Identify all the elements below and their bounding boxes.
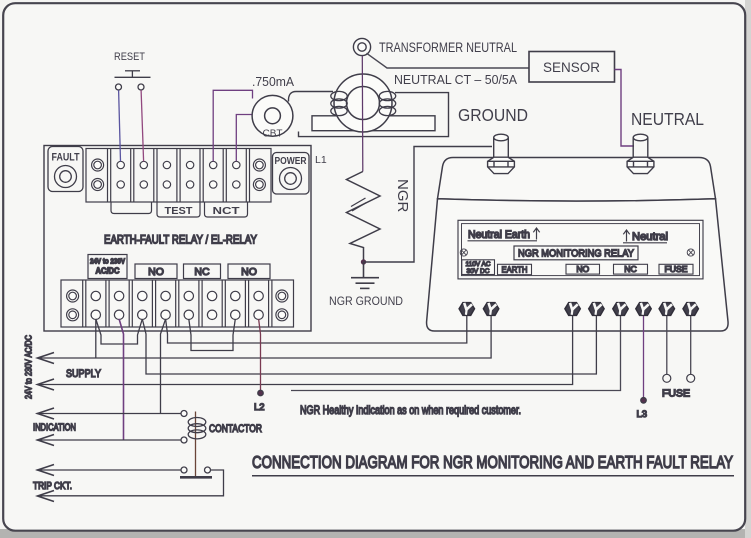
indication arrow 2 — [38, 435, 55, 446]
terminal screws TB2 — [67, 290, 288, 321]
wire trip top — [37, 469, 182, 471]
svg-text:EARTH-FAULT RELAY / EL-RELAY: EARTH-FAULT RELAY / EL-RELAY — [104, 233, 257, 247]
label FUSE — [659, 264, 693, 274]
wire relay bolt 8 to fuse — [690, 316, 692, 374]
svg-text:L1: L1 — [315, 154, 327, 166]
relay terminal bolt 2 — [483, 303, 498, 316]
svg-text:NGR MONITORING RELAY: NGR MONITORING RELAY — [518, 248, 634, 260]
wire CBT to CT top conductor — [288, 92, 333, 102]
svg-text:FUSE: FUSE — [665, 264, 688, 274]
node L2 — [258, 390, 263, 395]
svg-text:110V AC: 110V AC — [466, 261, 491, 268]
terminal strip TB2 (bottom) — [61, 280, 294, 327]
wire TB1 col6 to CBT — [213, 90, 252, 161]
svg-text:30V DC: 30V DC — [467, 268, 490, 275]
TEST bracket label — [157, 202, 200, 217]
wire NGR node to relay ground stud — [364, 147, 493, 263]
svg-text:L3: L3 — [637, 409, 648, 420]
CBT transformer — [252, 95, 293, 136]
NGR monitoring relay enclosure front face — [427, 199, 729, 331]
label NC — [614, 264, 648, 274]
terminal strip TB1 (top) — [86, 149, 271, 203]
wire TB2 col5 to relay bolt 1 — [166, 316, 467, 343]
svg-text:NC: NC — [194, 266, 210, 278]
wire relay bolt 5 horizontal — [291, 316, 621, 391]
POWER indicator lamp — [273, 153, 310, 195]
wire supply 2 to relay bolt 3 — [40, 316, 573, 385]
wire relay bolt 7 to fuse — [666, 316, 668, 374]
trip arrow 1 — [38, 465, 55, 476]
label NC box — [184, 264, 221, 279]
svg-text:NGR Healthy Indication as on w: NGR Healthy Indication as on when requir… — [300, 403, 521, 417]
relay terminal bolt 5 — [613, 303, 628, 316]
svg-text:NEUTRAL: NEUTRAL — [631, 109, 704, 129]
svg-text:NGR GROUND: NGR GROUND — [329, 296, 403, 308]
wire sensor to neutral stud — [615, 70, 635, 147]
svg-text:Neutral Earth: Neutral Earth — [468, 229, 530, 241]
label NO — [566, 264, 600, 274]
ground symbol — [351, 262, 379, 288]
terminal screws TB1 — [92, 159, 266, 191]
neutral stud terminal — [24, 134, 735, 501]
svg-text:NCT: NCT — [213, 205, 241, 217]
label NO box 1 — [135, 264, 177, 279]
node L3 — [641, 398, 646, 403]
svg-text:GROUND: GROUND — [458, 105, 528, 125]
SENSOR box — [529, 52, 615, 83]
svg-text:NGR: NGR — [394, 179, 411, 213]
wire TB2 col3 to indication bottom — [119, 319, 123, 440]
svg-text:24V to 230V: 24V to 230V — [90, 257, 126, 266]
CT winding left — [331, 91, 347, 115]
label EARTH — [498, 264, 532, 274]
relay terminal bolt 3 — [565, 303, 580, 316]
wire TB2 col9 to L2 — [259, 319, 261, 391]
supply arrow 1 — [38, 353, 55, 364]
svg-text:TRIP CKT.: TRIP CKT. — [33, 481, 72, 492]
indication arrow 1 — [38, 408, 55, 419]
label NGR MONITORING RELAY — [514, 246, 638, 260]
wire relay bolt 6 to L3 — [643, 316, 645, 398]
NGR monitoring relay enclosure top face — [438, 158, 716, 202]
svg-text:CONTACTOR: CONTACTOR — [209, 423, 262, 435]
wire transformer neutral to sensor — [367, 53, 530, 68]
svg-text:NC: NC — [624, 264, 636, 274]
label NO box 2 — [228, 264, 270, 279]
wire reset left to TB1 col2 — [119, 90, 121, 161]
wire CBT to CT bottom loop — [299, 93, 449, 137]
wire reset right to TB1 col3 — [141, 90, 144, 161]
svg-text:Neutral: Neutral — [632, 231, 668, 243]
svg-text:INDICATION: INDICATION — [33, 423, 76, 434]
wire transformer neutral down through CT to NGR — [361, 56, 364, 172]
svg-text:.750mA: .750mA — [252, 74, 294, 89]
node NGR ground junction — [361, 259, 366, 264]
wire indication top — [37, 413, 182, 415]
faceplate screw right — [687, 249, 694, 256]
label 110V AC 30V DC — [462, 260, 495, 275]
relay terminal bolt 4 — [589, 303, 604, 316]
wire indication bottom — [37, 439, 182, 441]
svg-text:24V to 230V AC/DC: 24V to 230V AC/DC — [24, 335, 34, 399]
relay terminal bolt 6 — [636, 303, 651, 316]
svg-text:POWER: POWER — [275, 156, 308, 167]
svg-text:NO: NO — [241, 266, 257, 278]
svg-text:SENSOR: SENSOR — [543, 60, 600, 75]
relay faceplate — [458, 220, 703, 279]
svg-text:FAULT: FAULT — [52, 152, 80, 164]
svg-text:TRANSFORMER NEUTRAL: TRANSFORMER NEUTRAL — [379, 40, 517, 55]
svg-text:SUPPLY: SUPPLY — [66, 368, 102, 380]
svg-text:NO: NO — [576, 264, 589, 274]
svg-text:AC/DC: AC/DC — [96, 266, 120, 276]
NGR adjust hash — [351, 198, 366, 207]
label 24V to 230V AC/DC box — [88, 255, 127, 279]
faceplate screw left — [460, 249, 467, 256]
relay terminal bolt 7 — [659, 303, 674, 316]
contactor coil K1 — [181, 411, 206, 477]
trip arrow 2 — [38, 491, 55, 502]
jumper TB2 col2 to col4 — [96, 319, 143, 344]
conductor bar through CT — [312, 116, 435, 131]
svg-text:L2: L2 — [254, 402, 265, 413]
svg-text:CONNECTION DIAGRAM FOR NGR MON: CONNECTION DIAGRAM FOR NGR MONITORING AN… — [252, 452, 733, 472]
wire supply 1 to relay bolt 2 — [40, 316, 491, 358]
NCT bracket label — [205, 202, 248, 217]
wire trip return loop — [38, 470, 224, 496]
transformer neutral terminal — [353, 38, 370, 55]
relay terminal bolt 8 — [683, 303, 698, 316]
svg-text:CBT: CBT — [263, 129, 283, 140]
FAULT indicator lamp — [48, 147, 83, 192]
jumper TB2 col6 to col8 — [189, 319, 236, 351]
relay terminal bolt 1 — [459, 303, 474, 316]
wire TB1 col7 to CBT — [236, 115, 252, 162]
svg-text:FUSE: FUSE — [662, 389, 690, 400]
CT winding right — [379, 91, 395, 115]
svg-text:NEUTRAL CT – 50/5A: NEUTRAL CT – 50/5A — [394, 72, 517, 87]
fuse terminal left — [663, 374, 671, 382]
svg-text:EARTH: EARTH — [502, 265, 528, 275]
contactor switch contact — [180, 467, 212, 477]
ground stud terminal — [24, 134, 735, 501]
svg-text:NO: NO — [148, 266, 164, 278]
resistor NGR — [347, 172, 381, 260]
neutral CT torus — [334, 74, 392, 132]
svg-text:RESET: RESET — [114, 51, 145, 63]
wire TB2 col2 to supply line — [95, 319, 97, 358]
fuse terminal right — [687, 374, 695, 382]
wire TB2 col5 to indication top — [161, 319, 166, 414]
earth-fault relay outline box — [44, 146, 311, 332]
supply arrow 2 — [38, 379, 55, 390]
reset terminals bracket — [111, 202, 152, 214]
svg-text:TEST: TEST — [165, 205, 194, 217]
wire TB2 col4 to relay bolt 4 — [142, 316, 596, 374]
